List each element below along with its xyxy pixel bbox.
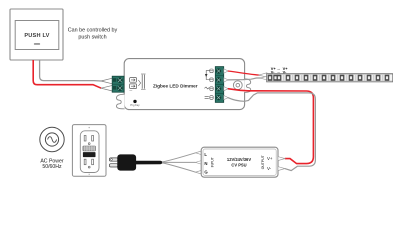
svg-text:V-: V- [267, 166, 272, 171]
wire: dimmer V- out to strip (grey) [228, 78, 261, 80]
svg-text:L: L [204, 152, 207, 157]
ferrule: PSU N [195, 160, 202, 164]
dimmer left cable clamp comb [116, 94, 124, 109]
AC cable [136, 161, 165, 165]
wire: cable to PSU L [162, 153, 196, 162]
svg-text:N: N [204, 161, 207, 166]
AC plug [109, 154, 136, 170]
ferrule: strip V- [260, 76, 267, 80]
svg-text:INPUT: INPUT [211, 157, 215, 167]
wire: cable to PSU G [162, 163, 196, 172]
zigbee dimmer U1 body [124, 59, 244, 110]
LED strip [267, 74, 393, 82]
ferrule: dimmer out V+ [224, 69, 228, 73]
wall outlet [72, 125, 106, 177]
ferrule: PSU L [195, 151, 202, 155]
svg-text:Zigbee LED Dimmer: Zigbee LED Dimmer [153, 84, 198, 89]
power supply PSU [201, 147, 278, 177]
svg-text:PUSH LV: PUSH LV [24, 33, 49, 39]
AC power source [40, 127, 64, 170]
svg-text:CV PSU: CV PSU [231, 162, 246, 167]
ferrule: PSU V- out [278, 167, 285, 171]
svg-text:OUTPUT: OUTPUT [261, 155, 265, 169]
ferrule: dimmer out V- [224, 78, 228, 82]
label: V+ to V+ / V- to V- [271, 66, 288, 75]
wire: push switch to dimmer (red) [33, 60, 101, 88]
svg-text:V+: V+ [267, 156, 273, 161]
ferrule: strip V+ [259, 73, 267, 77]
label: can be controlled by push switch [68, 28, 118, 41]
ferrule: PSU V+ out [278, 157, 285, 161]
push switch SW1 [10, 9, 63, 60]
svg-text:Prg Key: Prg Key [130, 103, 140, 107]
svg-text:Can be controlled by: Can be controlled by [68, 28, 118, 34]
svg-text:50/60Hz: 50/60Hz [42, 164, 62, 170]
wire: cable to PSU N [162, 161, 196, 163]
dimmer right cable clamp comb [244, 79, 251, 93]
dimmer right terminal block (power/load) [215, 67, 223, 103]
dimmer push-dim icons [130, 74, 146, 89]
connector ferrule: dimmer input lower [101, 85, 112, 91]
dimmer programming button [133, 100, 136, 103]
connector ferrule: dimmer input upper [101, 78, 112, 84]
dimmer mounting hole [233, 81, 242, 90]
ferrule: dimmer in V- [224, 96, 228, 100]
wire: push switch to dimmer (grey) [40, 60, 102, 81]
dimmer right terminal icons [204, 69, 213, 99]
wire: PSU V+ to dimmer (red) [228, 89, 314, 164]
ferrule: dimmer in V+ [224, 87, 228, 91]
wire: PSU V- to dimmer (grey) [228, 93, 316, 171]
svg-text:push switch: push switch [78, 34, 106, 40]
dimmer left terminal block (push input) [112, 76, 124, 92]
ferrule: PSU G [195, 170, 202, 174]
wire: dimmer V+ out to strip (red) [228, 71, 260, 75]
